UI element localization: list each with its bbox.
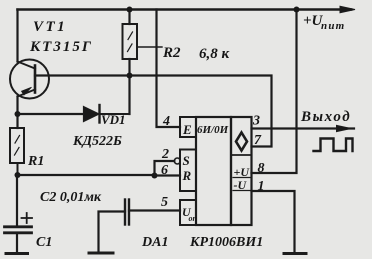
IC right service field: [231, 117, 252, 225]
svg-text:R1: R1: [27, 154, 44, 169]
wire top rail +U: [18, 8, 352, 11]
IC box Uоп: [180, 200, 196, 225]
svg-text:6И/0И: 6И/0И: [197, 124, 229, 136]
resistor R2: [123, 24, 138, 59]
svg-text:КД522Б: КД522Б: [72, 134, 122, 149]
svg-text:R: R: [182, 168, 192, 183]
wire pin 2 branch: [155, 161, 175, 176]
label Выход: [300, 109, 351, 125]
wire reset pin 4 from rail: [157, 10, 181, 128]
wire pin 6 R input: [155, 174, 181, 176]
svg-text:оп: оп: [189, 214, 198, 223]
IC DA1 main field: [196, 117, 231, 225]
label R1: [27, 154, 44, 169]
IC box E input: [180, 117, 196, 137]
wire C1 vertical: [16, 175, 18, 225]
label VT1: [29, 19, 93, 55]
inverter bubble pin 2: [174, 158, 180, 164]
leader line R2 label: [137, 46, 162, 48]
pin number 2: [161, 147, 169, 178]
ground C1: [6, 252, 28, 255]
wire C2 right to pin 5: [129, 209, 180, 211]
wire emitter vertical: [16, 97, 18, 129]
label +Uпит: [303, 13, 345, 32]
svg-text:VD1: VD1: [101, 112, 126, 127]
svg-text:8: 8: [258, 161, 265, 176]
svg-text:пит: пит: [321, 20, 345, 32]
svg-text:2: 2: [161, 147, 169, 162]
svg-text:7: 7: [254, 133, 262, 148]
meander output waveform: [314, 139, 353, 152]
wire to pins 2,6: [18, 174, 155, 176]
wire base to pin 7: [35, 76, 272, 147]
node base/R2/diode junction: [127, 73, 133, 79]
label C2 value: [40, 190, 102, 205]
label VD1: [72, 112, 126, 149]
pin number 5: [161, 195, 168, 210]
wire C1 to ground: [16, 233, 18, 253]
svg-text:E: E: [182, 122, 192, 137]
wire R2 bottom to diode junction: [128, 59, 130, 114]
svg-text:4: 4: [162, 114, 170, 129]
label R2 6,8к: [162, 45, 230, 62]
svg-text:S: S: [183, 153, 190, 168]
ground pin 1: [284, 252, 306, 255]
svg-text:КТ315Г: КТ315Г: [29, 39, 93, 55]
svg-text:6,8 к: 6,8 к: [199, 46, 230, 62]
capacitor C2: [125, 200, 129, 225]
label C1: [36, 235, 52, 250]
node junction pin2/6 split: [152, 173, 158, 179]
open collector diamond pin 7: [236, 133, 247, 151]
ground C2: [89, 252, 113, 255]
output arrow: [337, 125, 352, 131]
wire diode branch: [18, 113, 84, 115]
svg-text:R2: R2: [162, 45, 181, 61]
svg-text:VT1: VT1: [33, 19, 67, 35]
svg-text:C1: C1: [36, 235, 52, 250]
node junction emitter/diode: [15, 111, 21, 117]
labels +U -U: [234, 165, 251, 192]
wire pin 8 +U from rail: [252, 10, 297, 174]
svg-text:DA1: DA1: [141, 235, 168, 250]
label DA1 КР1006ВИ1: [141, 235, 263, 250]
resistor R1: [10, 128, 24, 175]
wire R2 top to rail: [128, 10, 130, 25]
transistor VT1: [10, 60, 49, 99]
svg-text:6: 6: [161, 163, 168, 178]
pin number 4: [162, 114, 170, 129]
divider below open-collector symbol: [231, 154, 252, 156]
svg-text:5: 5: [161, 195, 168, 210]
node rail/pin8: [294, 7, 300, 13]
IC label function: [197, 124, 229, 136]
svg-text:С2 0,01мк: С2 0,01мк: [40, 190, 102, 205]
wire C2 left to ground: [99, 212, 126, 253]
diode VD1: [84, 105, 130, 123]
node junction R1/C1/trigger: [15, 172, 21, 178]
plus sign C1: [22, 213, 33, 223]
wire pin 1 to ground: [252, 191, 295, 253]
pin number 8: [258, 161, 265, 194]
node rail/R2: [127, 7, 133, 13]
svg-text:КР1006ВИ1: КР1006ВИ1: [189, 235, 263, 250]
IC box S R inputs: [180, 150, 196, 192]
wire collector (rail corner down to VT1): [16, 10, 18, 62]
pin number 3: [252, 114, 262, 149]
wire output pin 3: [252, 127, 355, 129]
svg-text:3: 3: [252, 114, 260, 129]
capacitor C1 polarized: [5, 227, 32, 233]
svg-text:Выход: Выход: [300, 109, 351, 125]
power arrow +Uпит: [340, 6, 355, 13]
